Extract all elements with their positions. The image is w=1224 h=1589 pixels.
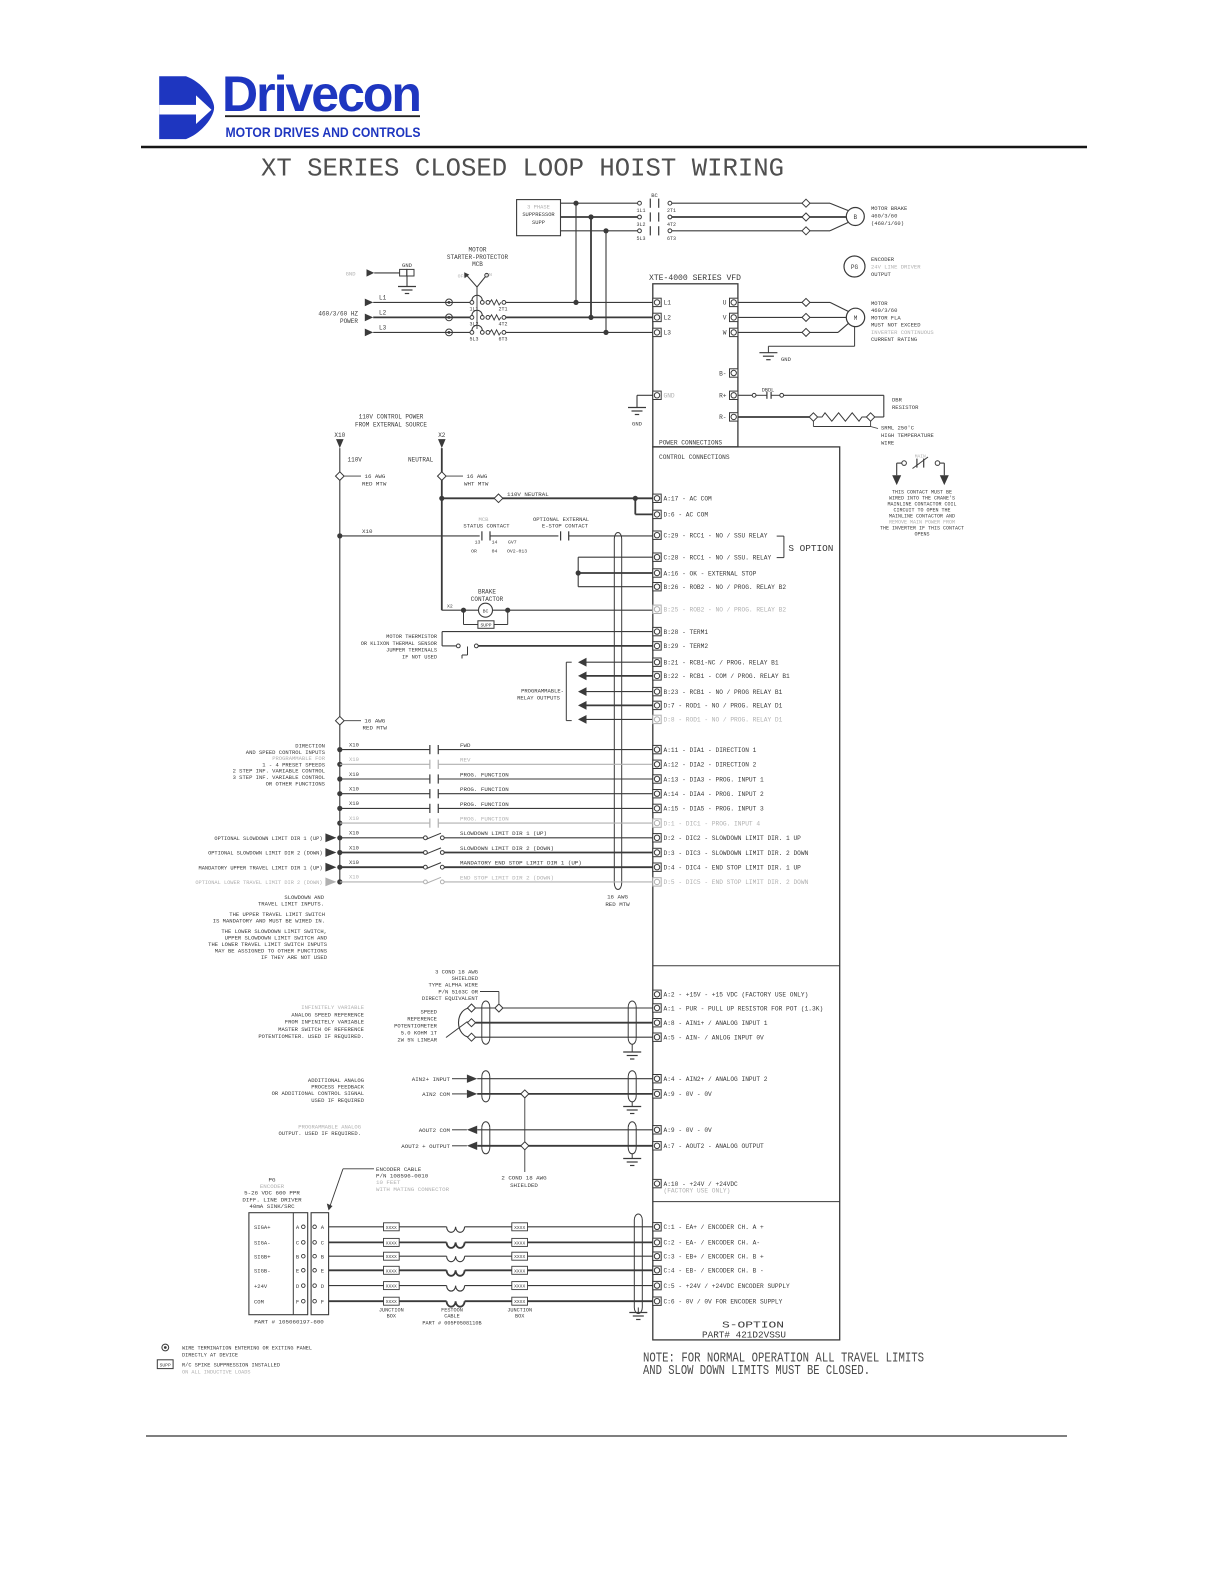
svg-text:S OPTION: S OPTION [788,543,833,554]
relay output arrow row 4 [578,701,587,710]
terminal D:3 [653,848,661,856]
wire suppressor row2 [561,216,638,218]
svg-text:E: E [296,1268,300,1275]
svg-text:DBR: DBR [892,397,903,404]
terminal W [730,328,738,336]
svg-text:L3: L3 [664,330,672,337]
svg-text:D:3 - DIC3 - SLOWDOWN LIMIT DI: D:3 - DIC3 - SLOWDOWN LIMIT DIR. 2 DOWN [664,850,809,857]
motor ground [854,327,856,347]
svg-text:MOTOR FLA: MOTOR FLA [871,314,901,321]
svg-text:5L3: 5L3 [636,236,645,242]
svg-text:MANDATORY END STOP LIMIT DIR 1: MANDATORY END STOP LIMIT DIR 1 (UP) [460,860,582,867]
svg-text:SIGA-: SIGA- [254,1240,271,1247]
svg-text:B: B [321,1253,325,1260]
wire termination legend [162,1344,169,1351]
shield left analog1 [481,1007,483,1038]
terminal A:17 [653,494,661,502]
svg-text:A:5 - AIN- / ANLOG INPUT 0V: A:5 - AIN- / ANLOG INPUT 0V [664,1035,765,1042]
svg-text:XXXX: XXXX [386,1225,397,1231]
encoder PG [844,256,865,277]
svg-text:XXXX: XXXX [514,1254,525,1260]
terminal L3 [653,328,661,336]
svg-text:A: A [296,1224,300,1231]
terminal L1 [653,298,661,306]
jumper C28-A16-B26 [577,557,579,587]
input row SLOWDOWN LIMIT DIR 2 (DOWN) [337,850,342,855]
wire GND terminal to ground [637,394,653,396]
svg-text:40mA SINK/SRC: 40mA SINK/SRC [249,1203,295,1210]
svg-text:D:5 - DIC5 - END STOP LIMIT DI: D:5 - DIC5 - END STOP LIMIT DIR. 2 DOWN [664,879,809,886]
svg-text:XXXX: XXXX [514,1284,525,1290]
contactor BC pole 2 [638,215,642,219]
wire pot to A5 [476,1036,653,1038]
svg-text:D:7 - ROD1 - NO / PROG. RELAY: D:7 - ROD1 - NO / PROG. RELAY D1 [664,703,783,710]
Drivecon logo icon [159,76,214,139]
terminal A:9 [653,1090,661,1098]
svg-text:X10: X10 [349,815,359,822]
svg-text:IS MANDATORY AND MUST BE WIRED: IS MANDATORY AND MUST BE WIRED IN. [213,918,325,925]
GND terminal block [400,269,407,276]
svg-text:GND: GND [664,393,675,400]
wire 110V bus [339,448,341,882]
svg-text:B:28 - TERM1: B:28 - TERM1 [664,629,709,636]
svg-text:FROM INFINITELY VARIABLE: FROM INFINITELY VARIABLE [285,1019,365,1026]
terminal B- [730,369,738,377]
svg-text:L3: L3 [379,324,387,331]
terminal C:4 [653,1266,661,1274]
svg-text:FROM EXTERNAL SOURCE: FROM EXTERNAL SOURCE [355,422,427,429]
svg-text:B:26 - ROB2 - NO / PROG. RELAY: B:26 - ROB2 - NO / PROG. RELAY B2 [664,584,787,591]
svg-text:X10: X10 [349,844,359,851]
suppressor SUPP box [517,200,561,236]
svg-text:SUPP: SUPP [480,623,491,629]
wire AIN2+ [452,1078,467,1080]
svg-text:MCB: MCB [472,261,483,268]
svg-text:R-: R- [719,414,726,421]
terminal A:16 [653,569,661,577]
svg-text:GV7: GV7 [508,540,517,546]
svg-text:B: B [296,1253,300,1260]
svg-text:3 PHASE: 3 PHASE [527,205,550,211]
wire V to motor [738,316,846,318]
svg-text:2W 5% LINEAR: 2W 5% LINEAR [397,1037,437,1044]
svg-text:PROG. FUNCTION: PROG. FUNCTION [460,801,509,808]
svg-text:460/3/60: 460/3/60 [871,213,897,220]
terminal C:5 [653,1281,661,1289]
AIN2 input arrows [467,1075,477,1083]
shield ground analog1 [631,1044,633,1052]
motor brake B [846,208,864,226]
svg-text:SLOWDOWN LIMIT DIR 1 (UP): SLOWDOWN LIMIT DIR 1 (UP) [460,830,547,837]
svg-text:+24V: +24V [254,1283,268,1290]
svg-text:OPTIONAL SLOWDOWN LIMIT DIR 1: OPTIONAL SLOWDOWN LIMIT DIR 1 (UP) [214,836,322,842]
svg-text:MOTOR: MOTOR [871,300,888,307]
MCB mechanism link [476,296,478,329]
terminal D:2 [653,834,661,842]
svg-text:R+: R+ [719,393,727,400]
header rule [141,146,1087,148]
svg-text:RELAY OUTPUTS: RELAY OUTPUTS [517,694,561,701]
svg-text:SUPPRESSOR: SUPPRESSOR [522,212,555,218]
wire W to motor [738,331,838,333]
svg-text:MOTOR BRAKE: MOTOR BRAKE [871,205,908,212]
svg-text:REFERENCE: REFERENCE [407,1016,437,1023]
relay output arrow row 1 [578,658,587,667]
terminal A:13 [653,775,661,783]
svg-text:V: V [723,315,727,322]
svg-text:RED MTW: RED MTW [363,725,388,732]
svg-text:A:15 - DIA5 - PROG. INPUT 3: A:15 - DIA5 - PROG. INPUT 3 [664,806,765,813]
svg-text:XXXX: XXXX [386,1268,397,1274]
terminal B:25 [653,605,661,613]
svg-text:ANALOG SPEED REFERENCE: ANALOG SPEED REFERENCE [291,1011,364,1018]
svg-text:BOX: BOX [387,1314,397,1320]
wire jumper to D6 [633,496,638,501]
DBR resistor [738,416,809,418]
svg-text:5L3: 5L3 [469,336,478,342]
svg-text:PROG. FUNCTION: PROG. FUNCTION [460,771,509,778]
svg-text:XXXX: XXXX [386,1299,397,1305]
svg-text:PROG. FUNCTION: PROG. FUNCTION [460,816,509,823]
suppressor across BC coil [463,610,465,624]
wire DBDL to resistor [784,394,884,396]
marker 16 AWG RED MTW on bus [336,716,345,725]
svg-text:04: 04 [492,549,498,555]
encoder shield ground [637,1308,639,1313]
svg-text:COM: COM [254,1298,264,1305]
svg-text:6T3: 6T3 [498,336,507,342]
svg-text:X10: X10 [349,800,359,807]
svg-text:POTENTIOMETER: POTENTIOMETER [394,1023,438,1030]
svg-text:OR KLIXON THERMAL SENSOR: OR KLIXON THERMAL SENSOR [361,641,438,647]
terminal GND [653,391,661,399]
svg-text:JUNCTION: JUNCTION [507,1308,532,1314]
input row END STOP LIMIT DIR 2 (DOWN) [337,879,342,884]
svg-text:XXXX: XXXX [386,1254,397,1260]
terminal B:21 [653,658,661,666]
svg-text:CONTACTOR: CONTACTOR [471,596,504,603]
terminal D:4 [653,863,661,871]
svg-text:JUMPER TERMINALS: JUMPER TERMINALS [386,648,437,654]
svg-text:M: M [854,315,858,322]
svg-text:BC: BC [483,608,489,614]
svg-text:X10: X10 [362,528,373,535]
svg-text:GND: GND [346,270,357,277]
wire neutral drop [441,448,443,610]
svg-text:A:4 - AIN2+ / ANALOG INPUT 2: A:4 - AIN2+ / ANALOG INPUT 2 [664,1076,768,1083]
terminal A:10 [653,1179,661,1187]
svg-text:A:13 - DIA3 - PROG. INPUT 1: A:13 - DIA3 - PROG. INPUT 1 [664,776,765,783]
marker 16 AWG RED MTW top [336,472,345,481]
terminal B:22 [653,672,661,680]
terminal A:1 [653,1004,661,1012]
svg-text:A:1 - PUR - PULL UP RESISTOR F: A:1 - PUR - PULL UP RESISTOR FOR POT (1.… [664,1005,824,1012]
terminal A:14 [653,790,661,798]
svg-text:D: D [296,1283,300,1290]
wire MCB to VFD L3 [506,331,653,333]
svg-text:IF NOT USED: IF NOT USED [402,654,437,660]
encoder connector box [249,1213,308,1315]
svg-text:C:4 - EB- / ENCODER CH. B -: C:4 - EB- / ENCODER CH. B - [664,1268,764,1275]
svg-text:3L2: 3L2 [636,222,645,228]
terminal A:9 [653,1126,661,1134]
terminal C:29 [653,531,661,539]
svg-text:A:11 - DIA1 - DIRECTION 1: A:11 - DIA1 - DIRECTION 1 [664,747,757,754]
svg-text:X10: X10 [349,741,359,748]
terminal D:6 [653,510,661,518]
terminal C:2 [653,1238,661,1246]
svg-text:POTENTIOMETER. USED IF REQUIRE: POTENTIOMETER. USED IF REQUIRED. [258,1033,364,1040]
svg-text:USED IF REQUIRED: USED IF REQUIRED [311,1097,365,1104]
svg-text:Drivecon: Drivecon [222,66,420,122]
cable note leader [480,991,499,993]
svg-text:X10: X10 [349,859,359,866]
svg-text:D:6 - AC COM: D:6 - AC COM [664,512,709,519]
svg-text:OUTPUT: OUTPUT [871,271,892,278]
svg-text:RED MTW: RED MTW [362,481,387,488]
svg-text:F: F [296,1298,299,1305]
svg-text:A:9 - 0V - 0V: A:9 - 0V - 0V [664,1091,713,1098]
MCB poles [470,301,474,305]
svg-text:5.0 KOHM 1T: 5.0 KOHM 1T [401,1030,438,1037]
svg-text:MASTER SWITCH OF REFERENCE: MASTER SWITCH OF REFERENCE [278,1026,365,1033]
svg-text:14: 14 [492,540,498,546]
svg-text:POWER CONNECTIONS: POWER CONNECTIONS [659,439,722,446]
svg-text:B:21 - RCB1-NC / PROG. RELAY B: B:21 - RCB1-NC / PROG. RELAY B1 [664,660,779,667]
input row PROG. FUNCTION [337,791,342,796]
svg-text:C:29 - RCC1 - NO / SSU RELAY: C:29 - RCC1 - NO / SSU RELAY [664,533,768,540]
svg-text:INVERTER CONTINUOUS: INVERTER CONTINUOUS [871,329,934,336]
svg-text:4T2: 4T2 [498,321,507,327]
svg-text:END STOP LIMIT DIR 2 (DOWN): END STOP LIMIT DIR 2 (DOWN) [460,874,554,881]
svg-text:STARTER-PROTECTOR: STARTER-PROTECTOR [447,254,509,261]
svg-text:110V CONTROL POWER: 110V CONTROL POWER [359,414,424,421]
svg-text:4T2: 4T2 [667,222,676,228]
svg-text:BC: BC [651,192,658,199]
drain wire 2 cond note [521,1090,529,1098]
S OPTION bracket [783,536,785,558]
wire tap L1 drop [575,203,577,302]
svg-text:16 AWG: 16 AWG [607,894,628,901]
shield left AIN2 [481,1077,483,1096]
svg-text:REV: REV [460,757,471,764]
svg-text:F: F [321,1298,324,1305]
svg-text:A: A [321,1224,325,1231]
wire MCB to VFD L2 [506,316,653,318]
svg-text:X10: X10 [349,786,359,793]
svg-text:DIRECT EQUIVALENT: DIRECT EQUIVALENT [422,995,479,1002]
svg-text:SLOWDOWN LIMIT DIR 2 (DOWN): SLOWDOWN LIMIT DIR 2 (DOWN) [460,845,554,852]
wire TERM1 [442,631,653,633]
shield ground AIN2 [631,1102,633,1107]
terminal C:6 [653,1297,661,1305]
svg-text:1L1: 1L1 [636,208,645,214]
svg-text:A:17 - AC COM: A:17 - AC COM [664,496,713,503]
wire AOUT2 COM [452,1129,467,1131]
wire BC to brake row3 [672,230,830,232]
wire suppressor row1 [561,202,638,204]
svg-text:C:1 - EA+ / ENCODER CH. A +: C:1 - EA+ / ENCODER CH. A + [664,1224,765,1231]
svg-text:A:9 - 0V - 0V: A:9 - 0V - 0V [664,1127,713,1134]
wire L3 to MCB [373,331,470,333]
svg-text:PART # 005F0508110B: PART # 005F0508110B [422,1321,481,1327]
svg-text:AOUT2 + OUTPUT: AOUT2 + OUTPUT [401,1143,450,1150]
svg-text:FWD: FWD [460,742,471,749]
svg-text:XXXX: XXXX [386,1240,397,1246]
svg-text:GND: GND [781,356,792,363]
svg-text:X10: X10 [334,432,345,439]
svg-text:PG: PG [851,264,859,271]
svg-text:OR: OR [471,549,477,555]
svg-text:MANDATORY UPPER TRAVEL LIMIT D: MANDATORY UPPER TRAVEL LIMIT DIR 1 (UP) [199,865,323,871]
svg-text:A:7 - AOUT2 - ANALOG OUTPUT: A:7 - AOUT2 - ANALOG OUTPUT [664,1143,765,1150]
svg-text:SHIELDED: SHIELDED [510,1182,538,1189]
logo underline [225,115,420,117]
svg-text:A:12 - DIA2 - DIRECTION 2: A:12 - DIA2 - DIRECTION 2 [664,762,757,769]
drain diamond [495,1004,503,1012]
svg-text:X10: X10 [349,756,359,763]
contactor BC pole 1 [638,201,642,205]
wire X10 rung to C29 [337,533,342,538]
svg-text:SUPP: SUPP [532,220,545,226]
wire L1 to MCB [373,301,470,303]
svg-text:XT SERIES CLOSED LOOP HOIST WI: XT SERIES CLOSED LOOP HOIST WIRING [261,154,784,184]
svg-text:SIGB-: SIGB- [254,1268,271,1275]
svg-text:TRAVEL LIMIT INPUTS.: TRAVEL LIMIT INPUTS. [258,901,324,908]
relay output arrow row 5 [578,715,587,724]
svg-text:OUTPUT. USED IF REQUIRED.: OUTPUT. USED IF REQUIRED. [278,1130,361,1137]
svg-text:R/C SPIKE SUPPRESSION INSTALLE: R/C SPIKE SUPPRESSION INSTALLED [182,1362,280,1368]
svg-text:PART# 421D2VSSU: PART# 421D2VSSU [702,1330,786,1341]
supp legend [157,1360,173,1369]
limit input arrows [325,833,336,842]
terminal A:11 [653,745,661,753]
wire 110V neutral to A17 [439,496,444,501]
svg-text:16 AWG: 16 AWG [467,473,488,480]
svg-text:OPENS: OPENS [914,532,929,538]
svg-text:SRML 250'C: SRML 250'C [881,425,915,432]
svg-text:(460/1/60): (460/1/60) [871,220,904,227]
svg-text:D:1 - DIC1 - PROG. INPUT 4: D:1 - DIC1 - PROG. INPUT 4 [664,820,761,827]
ground symbol at GND block [406,276,408,287]
svg-text:OV2-013: OV2-013 [507,549,527,555]
svg-text:XTE-4000 SERIES VFD: XTE-4000 SERIES VFD [649,273,741,283]
svg-text:X2: X2 [438,432,446,439]
svg-text:CONTROL CONNECTIONS: CONTROL CONNECTIONS [659,454,730,461]
wire BC to brake row2 [672,216,847,218]
terminal U [730,298,738,306]
svg-text:POWER: POWER [340,318,358,325]
svg-text:U: U [723,300,727,307]
svg-text:C:28 - RCC1 - NO / SSU. RELAY: C:28 - RCC1 - NO / SSU. RELAY [664,555,772,562]
terminal B:26 [653,583,661,591]
terminal C:1 [653,1223,661,1231]
svg-text:D: D [321,1283,325,1290]
shield ground AOUT2 [631,1154,633,1159]
svg-text:GND: GND [632,421,643,428]
potentiometer [459,1008,470,1037]
svg-text:MOTOR THERMISTOR: MOTOR THERMISTOR [386,634,438,640]
wire L2 to MCB [373,316,470,318]
svg-text:FESTOON: FESTOON [441,1308,463,1314]
svg-text:E-STOP CONTACT: E-STOP CONTACT [542,523,589,530]
svg-text:2T1: 2T1 [667,208,676,214]
svg-text:D:2 - DIC2 - SLOWDOWN LIMIT DI: D:2 - DIC2 - SLOWDOWN LIMIT DIR. 1 UP [664,835,802,842]
svg-text:INFINITELY VARIABLE: INFINITELY VARIABLE [301,1004,364,1011]
VFD control section divider 1 [653,965,840,967]
svg-text:AIN2 COM: AIN2 COM [422,1091,450,1098]
terminal A:2 [653,990,661,998]
svg-text:D:4 - DIC4 - END STOP LIMIT D: D:4 - DIC4 - END STOP LIMIT DIR. 1 UP [664,865,802,872]
svg-text:XXXX: XXXX [514,1299,525,1305]
svg-text:C:2 - EA- / ENCODER CH. A-: C:2 - EA- / ENCODER CH. A- [664,1240,761,1247]
terminal A:8 [653,1019,661,1027]
wire AIN2 COM [452,1093,467,1095]
wire tap L2 drop [590,217,592,317]
svg-text:BRAKE: BRAKE [478,589,496,596]
shield right AIN2 [627,1077,629,1096]
svg-text:NEUTRAL: NEUTRAL [408,457,434,464]
svg-text:B:23 - RCB1 - NO / PROG RELAY: B:23 - RCB1 - NO / PROG RELAY B1 [664,689,783,696]
svg-text:W: W [723,330,727,337]
svg-text:A:14 - DIA4 - PROG. INPUT 2: A:14 - DIA4 - PROG. INPUT 2 [664,791,765,798]
svg-text:6T3: 6T3 [667,236,676,242]
footer rule [146,1435,1067,1437]
relay output arrow row 2 [578,672,587,681]
svg-text:SUPP: SUPP [160,1362,171,1368]
svg-text:B-: B- [719,370,726,377]
svg-text:L2: L2 [379,309,387,316]
svg-text:C:6 - 0V / 0V FOR ENCODER SUPP: C:6 - 0V / 0V FOR ENCODER SUPPLY [664,1299,783,1306]
SRML wire note [812,421,814,427]
svg-text:DBDL: DBDL [762,388,774,394]
wire suppressor row3 [561,230,638,232]
contactor BC pole 3 [638,229,642,233]
svg-text:13: 13 [475,540,481,546]
svg-text:L1: L1 [664,300,672,307]
svg-text:MOTOR DRIVES AND CONTROLS: MOTOR DRIVES AND CONTROLS [226,124,421,140]
terminal B:23 [653,687,661,695]
svg-text:16 AWG: 16 AWG [364,718,385,725]
svg-text:A:8 - AIN1+ / ANALOG INPUT 1: A:8 - AIN1+ / ANALOG INPUT 1 [664,1020,768,1027]
svg-text:MUST NOT EXCEED: MUST NOT EXCEED [871,322,921,329]
encoder shield [633,1220,635,1308]
terminal A:4 [653,1075,661,1083]
input row PROG. FUNCTION [337,821,342,826]
terminal D:5 [653,878,661,886]
svg-text:XXXX: XXXX [514,1240,525,1246]
svg-text:WIRE TERMINATION ENTERING OR E: WIRE TERMINATION ENTERING OR EXITING PAN… [182,1346,312,1352]
VFD control section box [653,447,840,1340]
svg-text:WHT MTW: WHT MTW [464,481,489,488]
svg-text:B:29 - TERM2: B:29 - TERM2 [664,643,709,650]
svg-text:WIRE: WIRE [881,440,895,447]
input row MANDATORY END STOP LIMIT DIR 1 (UP) [337,865,342,870]
terminal D:7 [653,701,661,709]
wire pot to A1 [476,1007,653,1009]
terminal D:1 [653,819,661,827]
terminal R+ [730,391,738,399]
terminal A:5 [653,1033,661,1041]
terminal A:12 [653,760,661,768]
svg-text:A:2 - +15V - +15 VDC (FACTORY: A:2 - +15V - +15 VDC (FACTORY USE ONLY) [664,992,809,999]
svg-text:SIGB+: SIGB+ [254,1253,271,1260]
svg-text:E: E [321,1268,325,1275]
relay output arrow row 3 [578,687,587,696]
svg-text:B: B [853,214,857,221]
terminal V [730,313,738,321]
terminal A:15 [653,804,661,812]
